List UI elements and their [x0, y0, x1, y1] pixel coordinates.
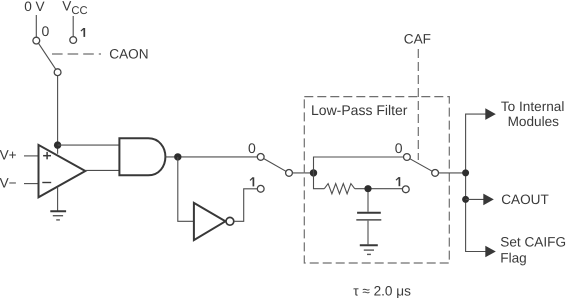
low-pass filter dashed box [304, 97, 449, 263]
svg-text:To Internal: To Internal [501, 99, 564, 114]
switch contact 0 (CAF) [404, 154, 411, 161]
svg-text:CAF: CAF [404, 32, 431, 47]
switch contact 1 (CAEX) [257, 185, 264, 192]
switch pole (CAF) [432, 170, 439, 177]
node output junction (filter) [462, 169, 469, 176]
svg-text:0: 0 [42, 23, 50, 39]
wire node down to capacitor [367, 192, 369, 212]
inverter bubble [226, 217, 234, 225]
svg-text:CAON: CAON [109, 47, 148, 62]
plus sign inside comparator [43, 152, 51, 159]
AND gate [119, 138, 165, 175]
switch contact 1 (CAON) [70, 37, 77, 44]
wire inverter output up to contact 1 [234, 189, 257, 222]
wire AND output [165, 156, 257, 158]
svg-text:0: 0 [395, 140, 403, 156]
svg-text:Modules: Modules [508, 114, 560, 129]
svg-text:Low-Pass Filter: Low-Pass Filter [311, 102, 408, 118]
wire resistor to node [355, 188, 403, 190]
wire junction down to inverter [178, 157, 194, 221]
wire pole into low-pass filter [292, 172, 313, 174]
wire V+ input [24, 155, 39, 157]
wire V- input [24, 183, 39, 185]
wire from VCC down [72, 16, 74, 36]
wire junction down to resistor [314, 173, 325, 189]
node output junction (CAOUT) [462, 196, 469, 203]
node filter input junction [310, 169, 317, 176]
node RC junction [364, 185, 371, 192]
label 1 (CAF switch) [396, 177, 399, 186]
node AND output junction [174, 153, 181, 160]
switch lever CAON [39, 43, 56, 69]
switch lever (polarity) [264, 159, 286, 172]
wire junction to AND gate top input [58, 144, 120, 146]
ground stem below comparator [57, 187, 59, 211]
svg-text:0: 0 [248, 140, 256, 156]
minus sign inside comparator [42, 182, 51, 184]
svg-text:0 V: 0 V [24, 0, 44, 14]
capacitor C (filter) [356, 213, 381, 220]
wire switch pole to comparator supply [57, 76, 59, 154]
arrow to internal modules [485, 108, 496, 120]
wire from 0 V down [35, 15, 37, 37]
node comparator supply junction [54, 141, 61, 148]
svg-text:Flag: Flag [500, 251, 526, 266]
wire filter output [439, 172, 466, 174]
wire capacitor to ground [367, 221, 369, 245]
label 1 [81, 28, 84, 37]
ground symbol filter [360, 245, 378, 254]
switch contact 1 (CAF) [402, 186, 409, 193]
switch contact 0 (CAEX) [257, 154, 264, 161]
resistor R (filter) [324, 184, 354, 194]
comparator U1 [39, 145, 86, 197]
svg-text:V−: V− [0, 175, 17, 190]
switch pole (polarity) [286, 170, 293, 177]
switch contact 0 (CAON) [33, 37, 40, 44]
inverter [194, 203, 226, 240]
wire CAOUT branch [466, 198, 484, 200]
output distribution bus [466, 114, 486, 251]
ground symbol comparator [50, 211, 66, 220]
svg-text:V+: V+ [0, 147, 17, 162]
switch lever (CAF) [410, 159, 432, 171]
arrow set CAIFG flag [485, 246, 496, 258]
dashed control line CAON [52, 53, 101, 55]
arrow CAOUT [483, 194, 494, 206]
svg-text:Set CAIFG: Set CAIFG [500, 234, 566, 249]
wire comparator output to AND gate bottom input [85, 169, 119, 171]
wire junction up to bypass contact 0 [314, 157, 404, 173]
svg-text:CAOUT: CAOUT [501, 192, 549, 207]
svg-text:τ ≈ 2.0 μs: τ ≈ 2.0 μs [353, 283, 411, 298]
dashed control line CAF [417, 49, 419, 160]
label 1 (polarity switch) [250, 177, 253, 186]
switch pole (CAON) [54, 69, 61, 76]
